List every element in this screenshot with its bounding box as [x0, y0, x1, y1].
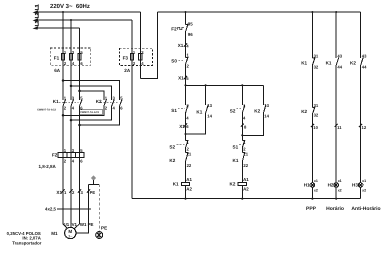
svg-text:A1: A1: [186, 177, 192, 182]
svg-text:11: 11: [337, 125, 342, 130]
earth electrode dashed wire: [98, 184, 100, 231]
svg-text:31: 31: [314, 54, 319, 59]
wire K2 pin2 to phase1 lower: [63, 106, 104, 116]
wire phase2 upper: [70, 20, 72, 100]
svg-text:M1: M1: [51, 231, 58, 236]
wire L3: [36, 27, 80, 29]
terminal X1-4: [184, 43, 187, 46]
wire L2: [36, 19, 132, 21]
svg-text:x2: x2: [362, 188, 366, 192]
K1 contact pole3: [80, 99, 83, 106]
K2 contact pole1: [104, 99, 107, 106]
wire rung2: [241, 85, 243, 198]
control bottom rail: [132, 198, 361, 200]
terminal X1-PE: [87, 189, 90, 192]
svg-text:L3: L3: [35, 20, 41, 26]
svg-text:Anti-Horário: Anti-Horário: [351, 206, 380, 212]
svg-text:6A: 6A: [54, 68, 61, 73]
junction phase3 / K2 feed: [78, 90, 81, 93]
svg-text:43: 43: [362, 54, 367, 59]
terminal X1-6: [184, 124, 187, 127]
node L2: [33, 18, 39, 22]
svg-text:14: 14: [207, 114, 212, 119]
wire phase2 lower: [70, 106, 72, 227]
fuse F1 element phase3: [78, 54, 81, 61]
svg-text:22: 22: [187, 163, 192, 168]
fuse F1 dashed box: [50, 48, 91, 65]
junction coil K2 / bottom rail: [241, 198, 243, 200]
junction phase3 lower: [78, 124, 81, 127]
wire V1 into motor: [70, 226, 72, 229]
junction K1 aux rejoin: [184, 133, 186, 135]
svg-text:A2: A2: [186, 187, 192, 192]
svg-text:S2: S2: [230, 108, 236, 113]
wire phase2 to K2 pin3: [71, 86, 112, 100]
svg-text:2A: 2A: [124, 68, 131, 73]
svg-text:x1: x1: [362, 179, 366, 183]
wire W1 into motor: [74, 224, 79, 228]
lamp column 3 wire: [360, 12, 362, 199]
cable mark 4x2,5: [57, 208, 91, 210]
svg-text:K2: K2: [169, 158, 175, 163]
wire phase3 lower: [79, 106, 81, 225]
junction phase1 / K2 feed: [62, 79, 65, 82]
svg-text:K1: K1: [173, 181, 179, 186]
svg-text:PPP: PPP: [306, 206, 317, 212]
junction main/branch: [184, 84, 186, 86]
junction top rail col1: [311, 11, 313, 13]
svg-text:x2: x2: [338, 188, 342, 192]
terminal X1-3: [78, 189, 81, 192]
svg-text:H2: H2: [328, 183, 334, 188]
svg-text:14: 14: [264, 114, 269, 119]
junction phase2 lower: [70, 119, 73, 122]
contact K1 13-14: [186, 85, 206, 134]
lamp column 2 wire: [335, 12, 337, 199]
svg-text:F3: F3: [123, 55, 129, 60]
wire phase1 to K2 pin5: [63, 81, 120, 101]
terminal X1-5: [184, 76, 187, 79]
node L3: [33, 26, 39, 30]
wire PE header: [89, 183, 100, 185]
junction L1/phase1: [62, 11, 64, 13]
wire phase1 upper: [62, 12, 64, 100]
svg-text:21: 21: [243, 151, 248, 156]
svg-text:95: 95: [188, 21, 193, 26]
svg-text:32: 32: [314, 65, 319, 70]
svg-text:PE: PE: [101, 225, 107, 230]
svg-text:F2: F2: [52, 152, 58, 157]
svg-text:K2: K2: [350, 60, 356, 65]
svg-text:44: 44: [337, 65, 342, 70]
svg-text:CWM07-7A-AC3: CWM07-7A-AC3: [80, 111, 100, 114]
svg-text:3~: 3~: [68, 235, 72, 239]
svg-text:W1: W1: [80, 222, 87, 227]
svg-text:L2: L2: [35, 12, 41, 18]
svg-text:21: 21: [187, 151, 192, 156]
control top rail: [158, 11, 361, 13]
svg-text:F2: F2: [171, 26, 177, 31]
junction col2 bottom rail: [335, 198, 337, 200]
svg-text:X1: X1: [178, 43, 184, 48]
svg-text:31: 31: [314, 103, 319, 108]
svg-text:X1: X1: [178, 75, 184, 80]
fuse F3 element 1: [130, 54, 133, 61]
svg-text:K2: K2: [301, 109, 307, 114]
wire L1: [36, 11, 140, 13]
svg-text:Transportador: Transportador: [12, 241, 41, 246]
PE bond diamond: [91, 175, 96, 180]
K1 coupling dashed: [59, 101, 79, 103]
svg-text:K1: K1: [326, 60, 332, 65]
svg-text:K2: K2: [254, 108, 260, 113]
svg-text:F1: F1: [54, 55, 60, 60]
junction phase2 / K2 feed: [70, 85, 73, 88]
svg-text:K1: K1: [196, 109, 202, 114]
svg-text:K1: K1: [301, 60, 307, 65]
lamp column 1 wire: [311, 12, 313, 199]
wire K2 pin6 to phase3 lower: [80, 106, 120, 126]
svg-text:43: 43: [337, 54, 342, 59]
node L1: [33, 10, 39, 14]
svg-text:13: 13: [264, 103, 269, 108]
wire U1 into motor: [63, 224, 67, 228]
svg-text:PE: PE: [88, 222, 94, 227]
svg-text:96: 96: [188, 32, 193, 37]
junction phase1 lower: [62, 114, 65, 117]
junction L2/phase2: [70, 19, 72, 21]
wire phase3 to K2 pin1: [80, 91, 104, 100]
svg-text:K1: K1: [233, 158, 239, 163]
fuse F3 element 2: [139, 54, 142, 61]
K2 contact pole3: [120, 99, 123, 106]
K1 contact pole2: [71, 99, 74, 106]
wire K2 pin4 to phase2 lower: [71, 106, 112, 121]
svg-text:A2: A2: [243, 187, 249, 192]
svg-text:1,8-2,8A: 1,8-2,8A: [39, 164, 57, 169]
junction K2 aux rejoin: [241, 134, 243, 136]
junction rung2 branch: [241, 84, 243, 86]
svg-text:PE: PE: [90, 190, 96, 195]
terminal X1-11: [335, 124, 338, 127]
svg-text:H1: H1: [304, 183, 310, 188]
svg-text:K2: K2: [96, 99, 102, 104]
svg-text:Horário: Horário: [326, 206, 344, 212]
terminal X1-8: [241, 124, 244, 127]
svg-text:K1: K1: [53, 99, 59, 104]
svg-text:x2: x2: [314, 188, 318, 192]
contact K2 13-14: [242, 85, 263, 135]
wire F3 fuse2 to control top rail: [140, 12, 157, 78]
svg-text:13: 13: [207, 103, 212, 108]
fuse F1 element phase2: [69, 54, 72, 61]
svg-text:M: M: [68, 229, 72, 234]
wire phase3 upper: [79, 28, 81, 100]
svg-text:H3: H3: [352, 183, 358, 188]
svg-text:S0: S0: [171, 59, 177, 64]
svg-text:44: 44: [362, 65, 367, 70]
wire main control line: [185, 12, 187, 199]
svg-text:x1: x1: [314, 179, 318, 183]
svg-text:X1: X1: [179, 124, 185, 129]
svg-text:L1: L1: [35, 4, 41, 10]
wire PE to motor: [76, 184, 89, 233]
svg-text:CWM07-7A-AC3: CWM07-7A-AC3: [37, 109, 57, 112]
wire phase1 lower: [62, 106, 64, 225]
svg-text:S1: S1: [233, 144, 239, 149]
junction top rail / main control line: [184, 11, 186, 13]
svg-text:A1: A1: [243, 177, 249, 182]
K2 coupling dashed: [101, 101, 119, 103]
terminal X1-10: [311, 124, 314, 127]
fuse F1 element phase1: [61, 54, 64, 61]
junction K1 aux branch: [205, 84, 207, 86]
terminal X1-1: [61, 189, 64, 192]
K2 contact pole2: [112, 99, 115, 106]
wire L2 to F3 fuse1 and down to bottom rail: [131, 20, 133, 199]
svg-text:22: 22: [243, 163, 248, 168]
wire branch header: [186, 84, 264, 86]
terminal X1-2: [69, 189, 72, 192]
svg-text:S2: S2: [169, 144, 175, 149]
svg-text:10: 10: [313, 125, 318, 130]
junction col1 bottom rail: [311, 198, 313, 200]
svg-text:x1: x1: [338, 179, 342, 183]
svg-text:12: 12: [362, 125, 367, 130]
svg-text:32: 32: [314, 113, 319, 118]
motor M1: [65, 227, 76, 238]
svg-text:220V 3~ 60Hz: 220V 3~ 60Hz: [50, 3, 90, 10]
svg-text:K2: K2: [230, 181, 236, 186]
svg-text:S1: S1: [171, 108, 177, 113]
K1 contact pole1: [63, 99, 66, 106]
fuse F3 dashed box: [119, 48, 152, 65]
junction top rail col2: [335, 11, 337, 13]
wire L1 to F3 fuse2: [139, 12, 141, 78]
terminal X1-12: [359, 124, 362, 127]
svg-text:4x2,5: 4x2,5: [45, 206, 57, 211]
junction coil K1 / bottom rail: [184, 198, 186, 200]
